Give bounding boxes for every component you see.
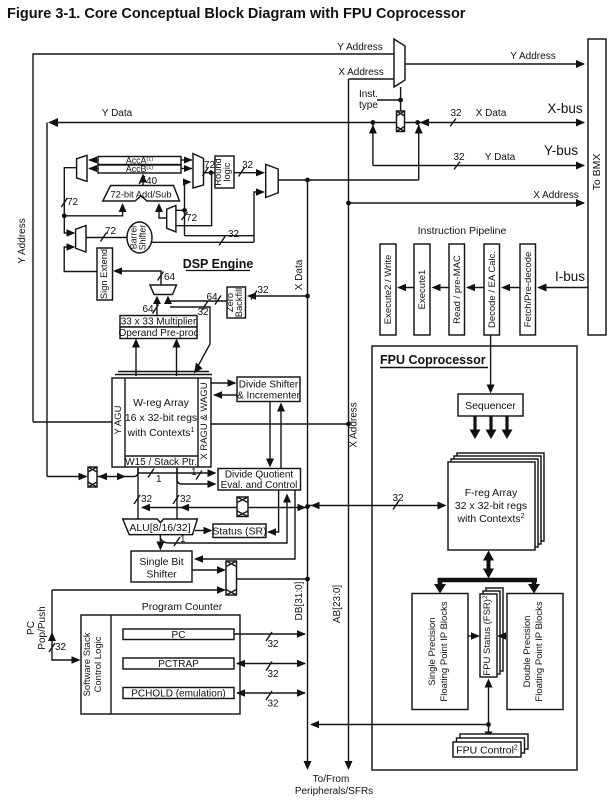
register PCTRAP — [123, 658, 234, 670]
block FPU Status (FSR) — [480, 594, 497, 677]
svg-text:FPU Status (FSR)2: FPU Status (FSR)2 — [482, 595, 493, 676]
svg-text:FPU Control2: FPU Control2 — [456, 745, 518, 757]
svg-text:ALU[8/16/32]: ALU[8/16/32] — [129, 522, 190, 534]
svg-text:X RAGU & WAGU: X RAGU & WAGU — [199, 382, 210, 459]
latch L3 ALU-DB latch — [237, 497, 248, 517]
wire I-bus (y=287.5) — [539, 287, 588, 289]
wire Divide Quotient up to Divide Shifter — [280, 404, 282, 469]
wire Add/Sub output 40 to AccB — [142, 175, 144, 186]
svg-text:Shifter: Shifter — [138, 225, 148, 250]
register AccB — [98, 164, 181, 174]
pipeline stage Decode/EA Calc — [484, 244, 500, 335]
wire pipeline stage arrows — [399, 287, 521, 289]
svg-text:with Contexts2: with Contexts2 — [457, 513, 525, 525]
adder 72-bit Add/Sub — [103, 186, 180, 202]
mux M5 add/sub operand mux — [167, 205, 176, 232]
svg-text:Y AGU: Y AGU — [113, 405, 124, 434]
wire Y Data / X-bus main horizontal (y=122.5) — [50, 122, 584, 124]
wire Decode to Sequencer — [490, 335, 492, 392]
block Status (SR) — [212, 524, 266, 538]
svg-text:33 x 33 Multiplier: 33 x 33 Multiplier — [121, 317, 197, 328]
wire AccA right to mux M3 — [181, 159, 192, 161]
wire M1 output down (x=64.3) — [64, 168, 76, 233]
mux M1 accumulator read mux — [77, 155, 87, 181]
svg-text:40: 40 — [146, 176, 158, 187]
svg-text:X-bus: X-bus — [547, 101, 583, 116]
wire mux M7 output to BMX (Y Address) — [405, 63, 584, 65]
svg-text:Sign Extend: Sign Extend — [99, 249, 109, 299]
svg-text:DB[31:0]: DB[31:0] — [294, 581, 305, 620]
latch L4 result latch — [226, 561, 237, 595]
wire Zero Backfill to M6 right input — [168, 297, 227, 301]
wire X Data to Zero Backfill — [249, 295, 308, 297]
svg-text:FPU Coprocessor: FPU Coprocessor — [380, 353, 486, 367]
svg-text:Backfill: Backfill — [234, 288, 244, 317]
register PCHOLD — [123, 688, 234, 700]
svg-text:Single Bit: Single Bit — [139, 556, 183, 568]
wire PC Pop/Push vertical — [52, 590, 79, 660]
wire W-reg to Divide Shifter — [211, 382, 235, 384]
wire X Data horizontal (y=180) — [278, 179, 419, 181]
W-reg array block — [112, 378, 211, 468]
ALU block — [123, 519, 198, 535]
mux M7 address select — [394, 39, 405, 87]
svg-text:Divide Quotient: Divide Quotient — [225, 470, 294, 481]
wire W15 to ALU input 1 (x=138) — [137, 468, 139, 519]
svg-text:DSP Engine: DSP Engine — [183, 257, 254, 271]
BMX bus — [588, 39, 606, 335]
svg-text:Double Precision: Double Precision — [522, 616, 533, 688]
wire latch L4 to DB — [237, 578, 308, 580]
wire W15 to Divide Quotient input 2 — [177, 468, 215, 484]
mux M6 multiplier result mux — [150, 285, 177, 295]
junction on x=64.3 — [62, 213, 67, 218]
block Sequencer — [458, 394, 523, 416]
wire latch L3 to DB junction — [248, 507, 308, 509]
svg-text:32: 32 — [450, 108, 462, 119]
svg-text:PC: PC — [26, 621, 37, 635]
block Divide Quotient Eval. and Control — [218, 469, 301, 492]
wire barrel output to M4 lower input — [254, 192, 264, 242]
svg-text:32: 32 — [55, 642, 67, 653]
wire DB to ALU inputs (y=507.5) — [142, 507, 237, 509]
wire X Data riser to X-bus (x=418.7) — [418, 125, 420, 180]
wire DP to FSR — [499, 635, 508, 637]
svg-text:Floating Point IP Blocks: Floating Point IP Blocks — [534, 601, 545, 701]
FPU Coprocessor box — [372, 346, 577, 770]
block Single Precision FP IP — [412, 594, 468, 710]
latch L2 stack access latch — [88, 467, 97, 487]
wire X Address to BMX (y=203) — [349, 202, 585, 204]
svg-text:Inst.: Inst. — [359, 89, 378, 100]
FPU control pages — [460, 734, 528, 749]
block Double Precision FP IP — [507, 594, 563, 710]
svg-text:X Address: X Address — [349, 402, 360, 448]
wire Add/Sub input B arrow — [159, 205, 167, 218]
svg-text:Program Counter: Program Counter — [142, 601, 223, 613]
svg-text:Sequencer: Sequencer — [465, 400, 516, 412]
wire Y-bus riser (x=373) — [372, 125, 374, 166]
node: FPU Coprocessor label — [380, 353, 488, 368]
wire X Data / DB[31:0] vertical (x=307.5) — [307, 180, 309, 761]
svg-text:Floating Point IP Blocks: Floating Point IP Blocks — [439, 601, 450, 701]
svg-text:32: 32 — [453, 152, 465, 163]
F-reg array context pages — [457, 453, 544, 541]
wire mux M6 output to Sign Extend — [115, 271, 162, 285]
wire AccB left to mux M1 — [89, 168, 98, 170]
wire Divide Quotient to Single Bit Shifter — [196, 490, 296, 559]
svg-text:16 x 32-bit regs: 16 x 32-bit regs — [125, 412, 197, 424]
wire X RAGU address out (y=424) — [211, 423, 349, 425]
svg-text:Single Precision: Single Precision — [427, 617, 438, 685]
wire F-reg to FPU blocks thick bidirectional — [483, 551, 494, 579]
svg-text:Operand Pre-proc: Operand Pre-proc — [118, 328, 198, 339]
svg-text:AB[23:0]: AB[23:0] — [332, 585, 343, 624]
svg-text:Execute2 / Write: Execute2 / Write — [383, 255, 394, 325]
svg-text:logic: logic — [222, 162, 232, 181]
Program Counter block — [81, 615, 240, 714]
svg-text:Y Data: Y Data — [485, 152, 516, 163]
F-reg array block — [448, 462, 535, 550]
svg-text:Control Logic: Control Logic — [93, 636, 104, 692]
svg-text:1: 1 — [191, 467, 197, 478]
svg-text:To BMX: To BMX — [591, 154, 603, 191]
svg-text:Eval. and Control: Eval. and Control — [221, 480, 298, 491]
svg-text:72-bit Add/Sub: 72-bit Add/Sub — [111, 190, 172, 200]
wire Y-bus (y=165.5) — [373, 165, 584, 167]
mux M3 accumulator select mux — [193, 154, 204, 189]
pipeline stage Execute2/Write — [380, 244, 396, 335]
svg-text:Y Data: Y Data — [102, 108, 133, 119]
wire latch L2 to W15 / Divide Quotient — [97, 476, 125, 478]
svg-text:Fetch/Pre-decode: Fetch/Pre-decode — [523, 252, 534, 328]
svg-text:32: 32 — [267, 699, 279, 710]
svg-text:1: 1 — [180, 534, 186, 545]
block Sign Extend — [97, 248, 113, 300]
wire ALU carry to Divide Quotient (1) — [160, 495, 287, 543]
wire W-reg to multiplier input 2 — [176, 340, 178, 376]
node: DSP Engine label — [183, 257, 254, 271]
node X Data top junction — [305, 178, 310, 183]
svg-text:W-reg Array: W-reg Array — [133, 397, 190, 409]
wire ALU to Single Bit Shifter — [159, 535, 161, 549]
wire Y AGU address out (y=422) — [33, 421, 112, 423]
wire Y Data corner into latch L2 — [47, 476, 87, 478]
block Single Bit Shifter — [131, 551, 192, 582]
wire Round logic to mux M4 — [234, 172, 264, 174]
wire barrel shifter output (y=242.3) — [152, 241, 255, 243]
svg-text:F-reg Array: F-reg Array — [465, 487, 518, 499]
svg-text:32 x 32-bit regs: 32 x 32-bit regs — [455, 500, 527, 512]
svg-text:Divide Shifter: Divide Shifter — [239, 380, 299, 391]
svg-text:32: 32 — [141, 494, 153, 505]
svg-text:32: 32 — [228, 229, 240, 240]
barrel shifter — [127, 222, 152, 253]
svg-text:Status (SR): Status (SR) — [212, 526, 266, 538]
svg-text:72: 72 — [67, 197, 79, 208]
svg-text:64: 64 — [142, 304, 154, 315]
svg-text:with Contexts1: with Contexts1 — [127, 427, 195, 439]
latch L1 instruction latch — [397, 111, 405, 132]
pipeline stage Fetch/Pre-decode — [520, 244, 536, 335]
svg-text:W15 / Stack Ptr.: W15 / Stack Ptr. — [125, 457, 197, 468]
wire multiplier to M6 left input — [156, 297, 158, 316]
wire Y Data left vertical (x=47) — [46, 123, 48, 477]
svg-text:To/From: To/From — [313, 774, 350, 785]
wire W15 to ALU input 2 (x=177) — [176, 468, 178, 519]
block FPU Control — [453, 742, 521, 757]
wire DB to F-reg array (32) — [308, 505, 446, 507]
svg-text:PC: PC — [172, 630, 186, 641]
wire control node to FPU Control — [488, 725, 490, 739]
svg-text:Pop/Push: Pop/Push — [37, 606, 48, 649]
wire 32 write path to W-reg — [170, 307, 210, 373]
block Divide Shifter & Incrementer — [237, 377, 301, 402]
FPU status pages — [486, 588, 503, 671]
wire W15 to Divide Quotient input 1 — [138, 472, 215, 474]
wire PC loop to latch L4 (y=590) — [52, 589, 225, 591]
svg-text:& Incrementer: & Incrementer — [237, 391, 300, 402]
wire inst type to latch — [377, 99, 401, 101]
register AccA — [98, 156, 181, 166]
svg-text:X Data: X Data — [294, 259, 305, 290]
svg-text:Y Address: Y Address — [510, 51, 555, 62]
svg-text:X Data: X Data — [476, 108, 507, 119]
register PC — [123, 629, 234, 641]
svg-text:Decode / EA Calc.: Decode / EA Calc. — [487, 251, 498, 328]
junction right of inst latch — [415, 120, 420, 125]
wire SBS output to latch L4 — [192, 569, 225, 571]
mux M2 barrel input mux — [76, 226, 86, 253]
wire sequencer control arrows — [470, 416, 513, 439]
wire ALU output to Status (SR) — [195, 530, 211, 532]
wire SP to FSR — [468, 635, 479, 637]
wire mux M7 to inst latch (x=400.6) — [400, 87, 402, 111]
svg-text:32: 32 — [257, 285, 269, 296]
svg-text:X Address: X Address — [533, 190, 579, 201]
wire Divide Quotient down to Status — [269, 490, 279, 532]
svg-text:32: 32 — [180, 494, 192, 505]
svg-text:PCTRAP: PCTRAP — [158, 659, 199, 670]
wire PCTRAP to DB — [237, 663, 305, 665]
svg-text:Software Stack: Software Stack — [82, 632, 93, 696]
wire M5 top input from x=184.5 node — [176, 209, 185, 211]
wire control node to DB — [312, 724, 489, 726]
svg-text:X Address: X Address — [338, 67, 384, 78]
wire M2 output to barrel shifter — [86, 237, 128, 239]
block Round logic — [213, 156, 234, 188]
svg-text:PCHOLD (emulation): PCHOLD (emulation) — [131, 689, 225, 700]
svg-text:Y-bus: Y-bus — [544, 143, 578, 158]
svg-text:32: 32 — [267, 639, 279, 650]
svg-text:type: type — [359, 100, 378, 111]
svg-text:Execute1: Execute1 — [417, 270, 428, 310]
svg-text:I-bus: I-bus — [555, 269, 585, 284]
wire M2 top input from x=64.3 done above; wire M2 bottom input from Sign Extend — [64, 247, 101, 272]
svg-text:1: 1 — [156, 474, 162, 485]
wire write-back bottom horizontal (y=235.7) — [185, 235, 255, 237]
svg-text:Instruction Pipeline: Instruction Pipeline — [418, 225, 507, 237]
block Zero Backfill — [225, 287, 246, 318]
wire Divide Shifter down to Divide Quotient — [269, 402, 271, 467]
svg-text:Read / pre-MAC: Read / pre-MAC — [452, 255, 463, 324]
wire M5 bottom input from round-node (x=211.6) — [176, 173, 212, 226]
wire X Address vertical (x=348.5) — [348, 79, 350, 761]
svg-text:Shifter: Shifter — [146, 569, 177, 581]
svg-text:32: 32 — [267, 669, 279, 680]
wire Y Address (top, y=54) — [33, 54, 394, 422]
wire X Address into mux M7 (y=79) — [349, 78, 395, 80]
wire FSR down to control node — [488, 682, 490, 725]
svg-text:Y Address: Y Address — [17, 218, 28, 263]
wire M3 output to Round logic — [204, 172, 216, 174]
wire AccA left to mux M1 — [89, 159, 98, 161]
mux M4 X-data out mux — [266, 164, 279, 197]
multiplier block — [118, 316, 198, 340]
svg-text:72: 72 — [186, 213, 198, 224]
wire AccB right to mux M3 — [181, 168, 192, 170]
pipeline stage Execute1 — [414, 244, 430, 335]
wire PCHOLD to DB — [237, 692, 305, 694]
svg-text:Peripherals/SFRs: Peripherals/SFRs — [295, 786, 373, 797]
wire to Add/Sub input A — [64, 205, 122, 216]
wire Divide Shifter to W-reg — [215, 394, 238, 396]
svg-text:Y Address: Y Address — [337, 42, 382, 53]
svg-text:64: 64 — [164, 272, 176, 283]
wire accumulator write-back vertical (x=184.5) — [185, 182, 191, 236]
junction left of inst latch — [371, 120, 376, 125]
pipeline stage Read/pre-MAC — [449, 244, 465, 335]
wire thick distribution bar — [434, 580, 540, 594]
svg-text:Figure 3-1. Core Conceptual Bl: Figure 3-1. Core Conceptual Block Diagra… — [7, 6, 466, 22]
W-reg array context pages — [115, 372, 212, 375]
wire PC to DB — [234, 633, 305, 635]
wire W-reg to multiplier input 1 — [135, 340, 137, 376]
svg-text:72: 72 — [105, 226, 117, 237]
